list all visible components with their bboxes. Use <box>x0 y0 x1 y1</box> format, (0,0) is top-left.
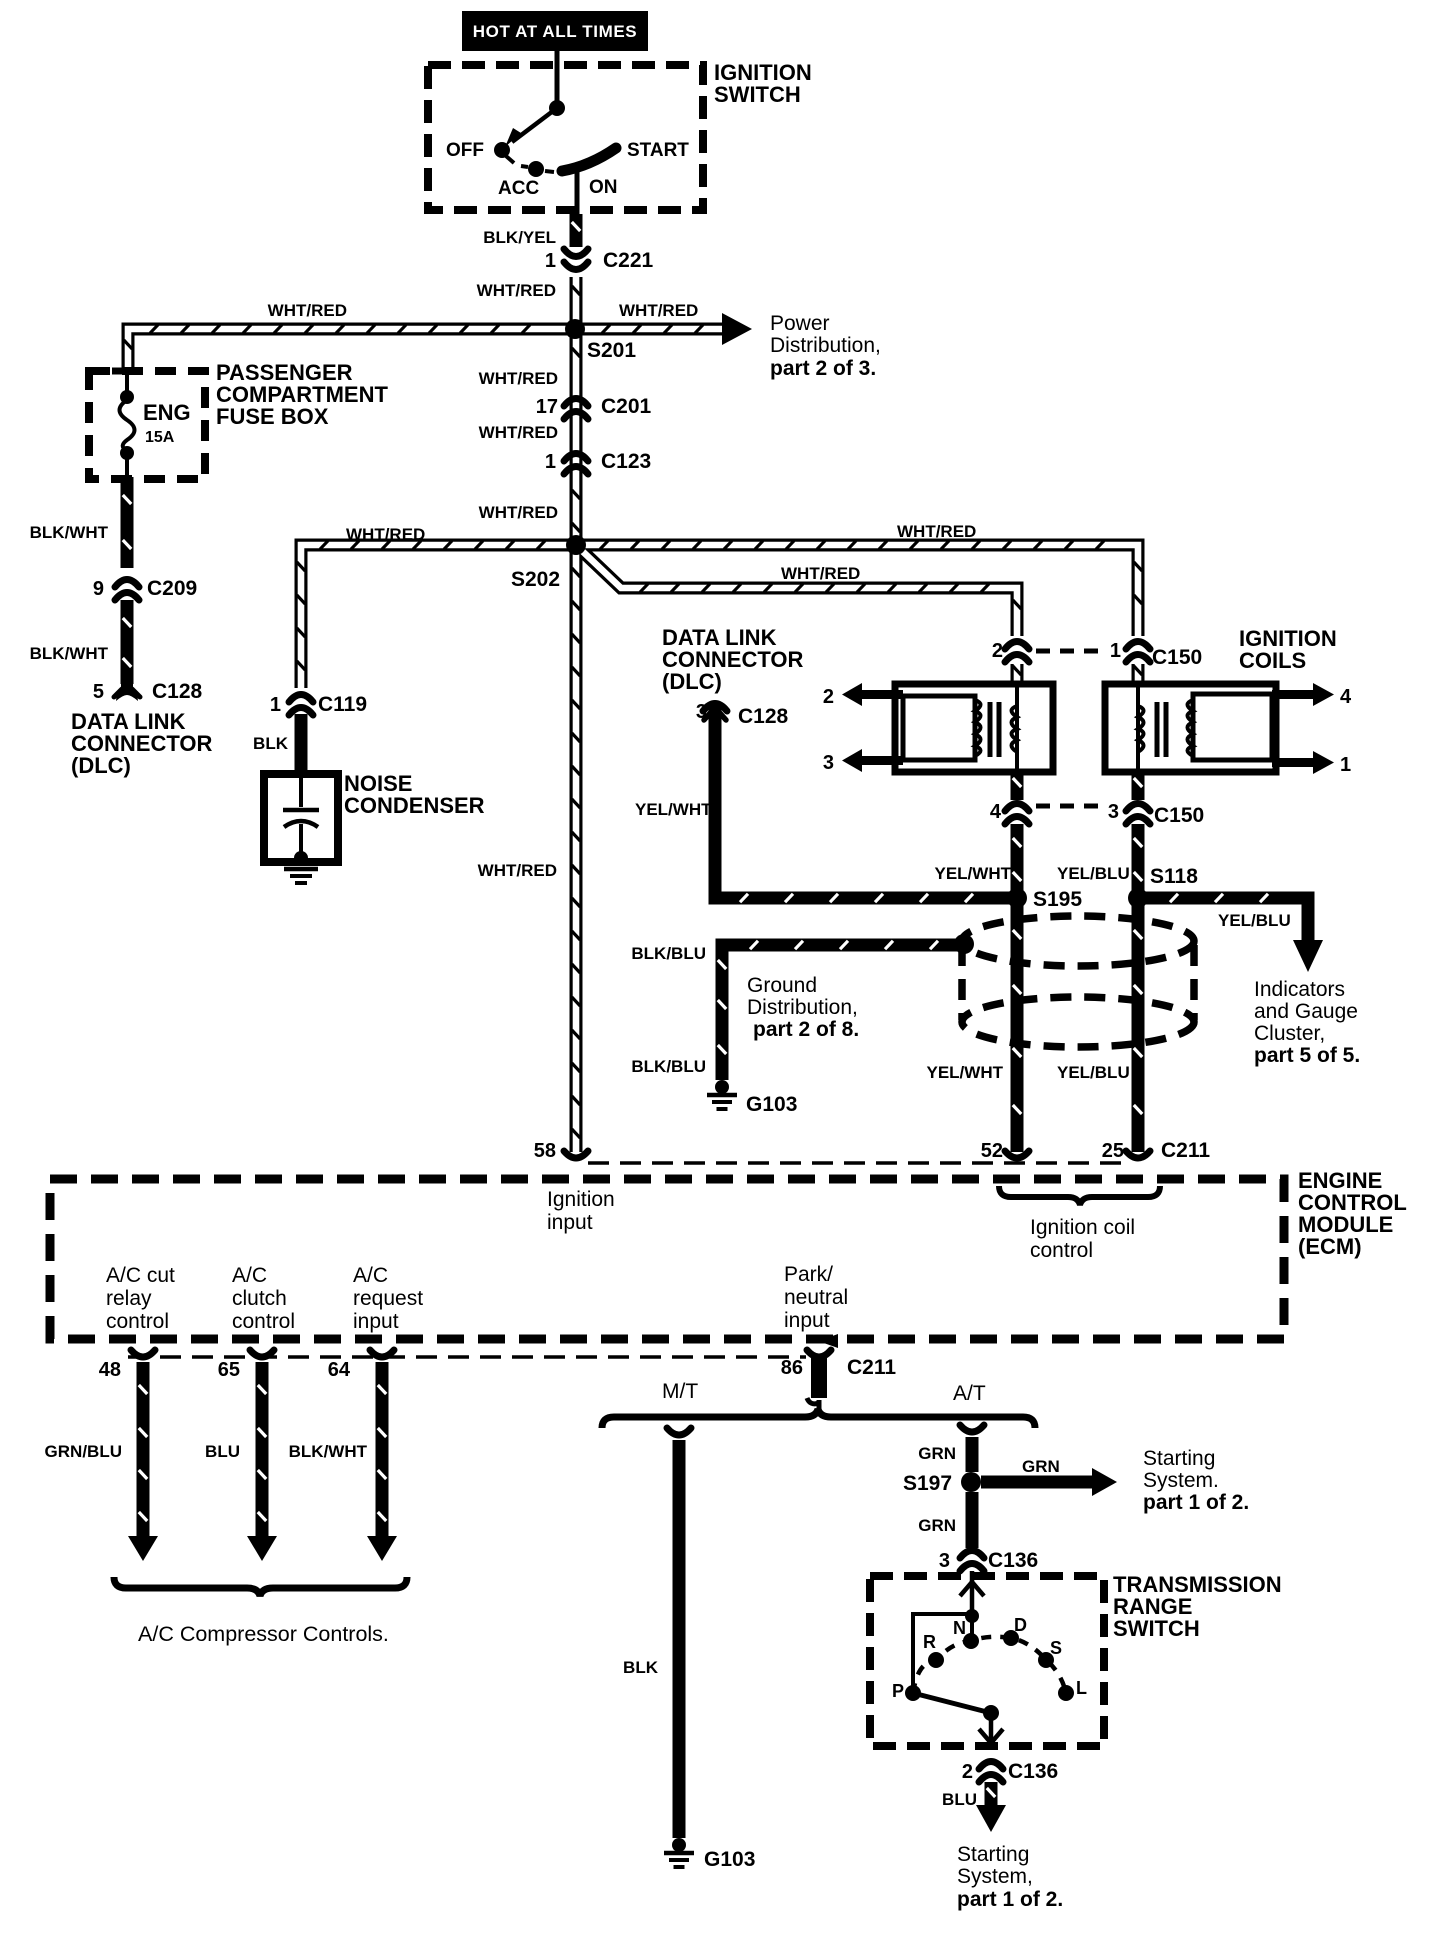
ignition switch OFF-ACC link <box>506 156 514 163</box>
ignition coil 2 terminal arrow 4 <box>1272 690 1314 699</box>
svg-text:YEL/BLU: YEL/BLU <box>1057 864 1130 883</box>
terminal C128 pin 3 <box>703 704 727 712</box>
connector C150 pin 1 <box>1126 642 1150 650</box>
svg-text:3: 3 <box>1108 801 1119 823</box>
ECM pin 48 cup <box>131 1350 155 1357</box>
splice S201 <box>565 319 585 339</box>
svg-text:5: 5 <box>93 681 104 703</box>
M/T branch cup <box>667 1428 691 1435</box>
svg-text:WHT/RED: WHT/RED <box>781 564 860 583</box>
svg-text:BLK/BLU: BLK/BLU <box>631 1057 706 1076</box>
svg-text:GRN: GRN <box>1022 1457 1060 1476</box>
svg-text:System.: System. <box>1143 1469 1219 1492</box>
connector C136 pin 3 <box>960 1551 984 1559</box>
connector C119 pin 1 <box>289 695 313 703</box>
ignition coil 2 primary winding <box>1136 684 1140 772</box>
connector C123 pin 1 <box>564 454 588 462</box>
ignition coil 1 core <box>988 702 993 757</box>
svg-text:C221: C221 <box>603 249 654 272</box>
svg-text:C128: C128 <box>152 680 203 703</box>
terminal C128 pin 5 <box>116 680 138 701</box>
wire GRN S197 to C136 <box>966 1492 979 1548</box>
svg-text:3: 3 <box>939 1550 950 1572</box>
wire BLK/BLU to ground distribution <box>722 945 958 1080</box>
svg-text:and Gauge: and Gauge <box>1254 1000 1358 1023</box>
connector C211 pin 86 <box>807 1350 831 1357</box>
svg-text:Park/: Park/ <box>784 1263 833 1286</box>
svg-text:Cluster,: Cluster, <box>1254 1022 1325 1045</box>
wire BLK to noise condenser <box>295 714 308 774</box>
svg-text:FUSE BOX: FUSE BOX <box>216 404 329 429</box>
svg-text:C136: C136 <box>988 1549 1038 1572</box>
ignition switch box <box>428 65 703 210</box>
svg-text:S202: S202 <box>511 568 560 591</box>
svg-text:HOT AT ALL TIMES: HOT AT ALL TIMES <box>473 22 637 41</box>
svg-text:C119: C119 <box>318 693 367 716</box>
splice S195 <box>1007 888 1027 908</box>
ignition switch common node <box>549 100 565 116</box>
TRS junction to P contact <box>965 1609 979 1623</box>
wire YEL/BLU C150-3 to S118 <box>1132 824 1145 898</box>
svg-text:(ECM): (ECM) <box>1298 1234 1362 1259</box>
svg-text:input: input <box>547 1211 593 1234</box>
svg-text:G103: G103 <box>746 1093 797 1116</box>
connector C221 pin 1 <box>564 262 588 270</box>
wire coil 1 to C150 pin 4 <box>1011 770 1024 800</box>
ECM header dashed pin line <box>588 1161 1128 1165</box>
svg-text:S197: S197 <box>903 1472 952 1495</box>
svg-text:C136: C136 <box>1008 1760 1058 1783</box>
svg-text:C209: C209 <box>147 577 197 600</box>
svg-text:65: 65 <box>218 1359 240 1381</box>
connector C150 pin 4 <box>1005 804 1029 812</box>
pin 52 cup <box>1005 1151 1029 1158</box>
ignition coil 2 terminal arrow 1 <box>1272 758 1314 767</box>
wire GRN A/T to S197 <box>966 1437 979 1472</box>
svg-text:2: 2 <box>962 1761 973 1783</box>
svg-text:control: control <box>232 1310 295 1333</box>
wire from hot feed into ignition switch <box>555 51 560 103</box>
svg-text:BLU: BLU <box>942 1790 977 1809</box>
svg-text:BLK/WHT: BLK/WHT <box>30 523 109 542</box>
ignition coil 1 box <box>895 684 1053 772</box>
svg-text:D: D <box>1014 1615 1027 1635</box>
svg-text:48: 48 <box>99 1359 121 1381</box>
wire coil 2 to C150 pin 3 <box>1132 770 1145 800</box>
arrow to power distribution <box>722 313 752 345</box>
wire GRN/BLU arrow from pin 48 <box>137 1362 150 1537</box>
svg-text:P: P <box>892 1681 904 1701</box>
ignition switch OFF contact <box>494 142 510 158</box>
svg-text:G103: G103 <box>704 1848 755 1871</box>
wire YEL/WHT S195 to ECM pin 52 <box>1011 902 1024 1152</box>
svg-text:Power: Power <box>770 312 830 335</box>
svg-text:C128: C128 <box>738 705 789 728</box>
ground G103 bottom <box>672 1838 686 1852</box>
svg-text:YEL/BLU: YEL/BLU <box>1057 1063 1130 1082</box>
svg-text:25: 25 <box>1102 1140 1124 1162</box>
svg-text:YEL/BLU: YEL/BLU <box>1218 911 1291 930</box>
wire BLK/WHT C209 to C128 <box>121 600 134 684</box>
svg-text:17: 17 <box>536 396 558 418</box>
svg-text:part 5 of 5.: part 5 of 5. <box>1254 1044 1360 1067</box>
svg-text:BLK/YEL: BLK/YEL <box>483 228 556 247</box>
ignition coil 1 secondary winding <box>903 696 975 760</box>
svg-text:COILS: COILS <box>1239 648 1306 673</box>
svg-text:part 1 of 2.: part 1 of 2. <box>1143 1491 1249 1514</box>
svg-text:control: control <box>106 1310 169 1333</box>
svg-text:S118: S118 <box>1150 865 1198 888</box>
svg-text:WHT/RED: WHT/RED <box>268 301 347 320</box>
svg-text:S201: S201 <box>587 339 636 362</box>
svg-text:1: 1 <box>1340 754 1351 776</box>
splice S197 <box>961 1472 981 1492</box>
svg-text:control: control <box>1030 1239 1093 1262</box>
noise condenser box <box>264 774 338 862</box>
svg-text:WHT/RED: WHT/RED <box>479 503 558 522</box>
svg-text:WHT/RED: WHT/RED <box>479 423 558 442</box>
arrow to indicators and gauge cluster <box>1293 940 1323 972</box>
svg-text:C211: C211 <box>847 1356 896 1379</box>
svg-text:3: 3 <box>696 701 707 723</box>
svg-text:L: L <box>1076 1678 1087 1698</box>
ignition switch ON-START blade <box>562 148 616 171</box>
splice S118 <box>1128 888 1148 908</box>
svg-text:ACC: ACC <box>498 178 539 199</box>
svg-text:WHT/RED: WHT/RED <box>897 522 976 541</box>
ECM pin 65 cup <box>250 1350 274 1357</box>
svg-text:WHT/RED: WHT/RED <box>478 861 557 880</box>
svg-text:WHT/RED: WHT/RED <box>619 301 698 320</box>
svg-text:part 2 of 3.: part 2 of 3. <box>770 357 876 380</box>
svg-text:YEL/WHT: YEL/WHT <box>635 800 712 819</box>
wire BLU arrow from pin 65 <box>256 1362 269 1537</box>
svg-text:Ground: Ground <box>747 974 817 997</box>
svg-text:Distribution,: Distribution, <box>747 996 858 1019</box>
svg-text:4: 4 <box>1340 686 1352 708</box>
svg-text:52: 52 <box>981 1140 1003 1162</box>
svg-text:BLU: BLU <box>205 1442 240 1461</box>
TRS output wire with down arrow <box>989 1713 994 1742</box>
svg-text:YEL/WHT: YEL/WHT <box>935 864 1012 883</box>
svg-text:input: input <box>353 1310 399 1333</box>
svg-text:A/C: A/C <box>353 1264 388 1287</box>
svg-text:1: 1 <box>1110 640 1121 662</box>
svg-text:YEL/WHT: YEL/WHT <box>927 1063 1004 1082</box>
dashed link between C150 pins 4-3 <box>1036 804 1106 809</box>
connector C209 pin 9 <box>115 580 139 588</box>
svg-text:64: 64 <box>328 1359 351 1381</box>
svg-text:Distribution,: Distribution, <box>770 334 881 357</box>
svg-text:GRN: GRN <box>918 1444 956 1463</box>
ignition coil 1 primary winding <box>1015 684 1019 772</box>
connector C150 pin 3 <box>1126 804 1150 812</box>
ignition switch wiper to OFF <box>512 108 557 142</box>
svg-text:WHT/RED: WHT/RED <box>477 281 556 300</box>
svg-text:CONDENSER: CONDENSER <box>344 793 485 818</box>
svg-text:2: 2 <box>823 686 834 708</box>
passenger compartment fuse box <box>89 371 205 479</box>
wire BLK/YEL from ignition switch <box>570 214 583 247</box>
svg-text:START: START <box>627 140 689 161</box>
arrow GRN to starting system <box>981 1476 1092 1489</box>
ignition coil 2 core <box>1155 702 1160 757</box>
hot-at-all-times label box <box>462 11 648 51</box>
connector C136 pin 2 <box>979 1762 1003 1770</box>
wire from ON position down <box>575 171 580 216</box>
svg-text:C201: C201 <box>601 395 652 418</box>
brace ignition coil control <box>999 1186 1160 1205</box>
svg-text:C150: C150 <box>1152 646 1202 669</box>
ECM bottom dashed pin line <box>128 1355 806 1359</box>
fuse ENG 15A <box>125 374 129 392</box>
svg-text:SWITCH: SWITCH <box>714 82 801 107</box>
svg-text:86: 86 <box>781 1357 803 1379</box>
transmission range switch box <box>870 1576 1104 1746</box>
svg-text:input: input <box>784 1309 830 1332</box>
svg-text:A/T: A/T <box>953 1382 986 1405</box>
pin 58 cup <box>564 1151 588 1158</box>
ignition coil 1 terminal arrow 3 <box>858 756 903 765</box>
svg-text:neutral: neutral <box>784 1286 848 1309</box>
svg-text:BLK/WHT: BLK/WHT <box>30 644 109 663</box>
ground G103 left <box>715 1080 729 1094</box>
svg-text:Starting: Starting <box>957 1843 1029 1866</box>
engine control module box <box>50 1179 1284 1339</box>
svg-text:GRN/BLU: GRN/BLU <box>45 1442 122 1461</box>
ground below noise condenser <box>284 867 318 872</box>
ignition coil 2 secondary winding <box>1193 694 1272 760</box>
svg-text:Ignition: Ignition <box>547 1188 615 1211</box>
TRS contacts P R N D S L <box>905 1685 921 1701</box>
svg-text:part 2 of 8.: part 2 of 8. <box>753 1018 859 1041</box>
svg-text:(DLC): (DLC) <box>71 753 131 778</box>
svg-text:BLK/BLU: BLK/BLU <box>631 944 706 963</box>
svg-text:1: 1 <box>545 250 556 272</box>
svg-text:WHT/RED: WHT/RED <box>346 525 425 544</box>
svg-text:System,: System, <box>957 1865 1033 1888</box>
svg-text:OFF: OFF <box>446 140 484 161</box>
ignition switch ACC contact <box>528 161 544 177</box>
wire BLK/WHT fuse to C209 <box>121 477 134 568</box>
svg-text:58: 58 <box>534 1140 556 1162</box>
dashed link between C150 pins <box>1036 649 1106 654</box>
svg-text:part 1 of 2.: part 1 of 2. <box>957 1888 1063 1911</box>
wire BLK M/T to ground <box>673 1440 686 1838</box>
svg-text:A/C: A/C <box>232 1264 267 1287</box>
svg-text:A/C cut: A/C cut <box>106 1264 175 1287</box>
svg-text:C211: C211 <box>1161 1139 1210 1162</box>
ignition coil 2 box <box>1105 684 1276 772</box>
distributor housing (dashed cylinder) <box>962 916 1194 966</box>
svg-text:4: 4 <box>990 801 1002 823</box>
svg-text:(DLC): (DLC) <box>662 669 722 694</box>
svg-text:clutch: clutch <box>232 1287 287 1310</box>
svg-text:S: S <box>1050 1638 1062 1658</box>
TRS contact arc dashed <box>913 1637 1066 1693</box>
arrow on ECM bottom edge at park/neutral input <box>818 1334 838 1348</box>
svg-text:1: 1 <box>545 451 556 473</box>
svg-text:request: request <box>353 1287 423 1310</box>
fuse box terminal bar <box>112 368 142 375</box>
svg-text:relay: relay <box>106 1287 152 1310</box>
svg-text:Starting: Starting <box>1143 1447 1215 1470</box>
svg-text:A/C Compressor Controls.: A/C Compressor Controls. <box>138 1622 389 1646</box>
svg-text:C123: C123 <box>601 450 651 473</box>
TRS wiper P to output <box>913 1693 991 1713</box>
ignition coil 1 terminal arrow 2 <box>858 690 903 699</box>
pin 25 cup <box>1126 1151 1150 1158</box>
svg-text:Ignition coil: Ignition coil <box>1030 1216 1135 1239</box>
wire WHT/RED network (outer strokes) <box>570 277 583 1152</box>
svg-text:2: 2 <box>992 640 1003 662</box>
svg-text:BLK/WHT: BLK/WHT <box>289 1442 368 1461</box>
TRS input wire with up arrow <box>970 1571 975 1616</box>
brace M/T A/T split <box>602 1409 1035 1428</box>
A/T branch cup <box>960 1425 984 1432</box>
connector C201 pin 17 <box>564 399 588 407</box>
wire YEL/WHT C150-4 to S195 <box>1011 824 1024 898</box>
junction dot distributor ground <box>954 934 974 954</box>
wire BLU arrow to starting system <box>985 1782 998 1806</box>
wire YEL/WHT DLC to S195 line <box>711 740 719 749</box>
svg-text:9: 9 <box>93 578 104 600</box>
svg-text:Indicators: Indicators <box>1254 978 1345 1001</box>
svg-text:SWITCH: SWITCH <box>1113 1616 1200 1641</box>
wire WHT/RED network (white cores) <box>573 277 580 1152</box>
svg-text:BLK: BLK <box>253 734 289 753</box>
capacitor inside noise condenser <box>299 778 303 807</box>
svg-text:ENG: ENG <box>143 400 191 425</box>
wire pin 86 to M/T A/T split <box>817 1400 822 1412</box>
svg-text:R: R <box>923 1632 936 1652</box>
svg-text:ON: ON <box>589 177 618 198</box>
brace a/c compressor controls <box>114 1577 407 1596</box>
splice S202 <box>566 535 586 555</box>
svg-text:GRN: GRN <box>918 1516 956 1535</box>
wire YEL/WHT YEL/BLU horizontal run <box>715 705 1017 898</box>
wire hatches on WHT/RED network <box>572 286 580 295</box>
svg-text:15A: 15A <box>145 429 175 446</box>
svg-text:BLK: BLK <box>623 1658 659 1677</box>
svg-text:M/T: M/T <box>662 1380 698 1403</box>
svg-text:C150: C150 <box>1154 804 1204 827</box>
wire BLK/WHT arrow from pin 64 <box>376 1362 389 1537</box>
svg-text:WHT/RED: WHT/RED <box>479 369 558 388</box>
svg-text:N: N <box>953 1618 966 1638</box>
wire YEL/BLU S118 to ECM pin 25 <box>1132 902 1145 1152</box>
svg-text:1: 1 <box>270 694 281 716</box>
svg-text:3: 3 <box>823 752 834 774</box>
connector C150 pin 2 <box>1005 642 1029 650</box>
svg-text:S195: S195 <box>1033 888 1082 911</box>
ECM pin 64 cup <box>370 1350 394 1357</box>
